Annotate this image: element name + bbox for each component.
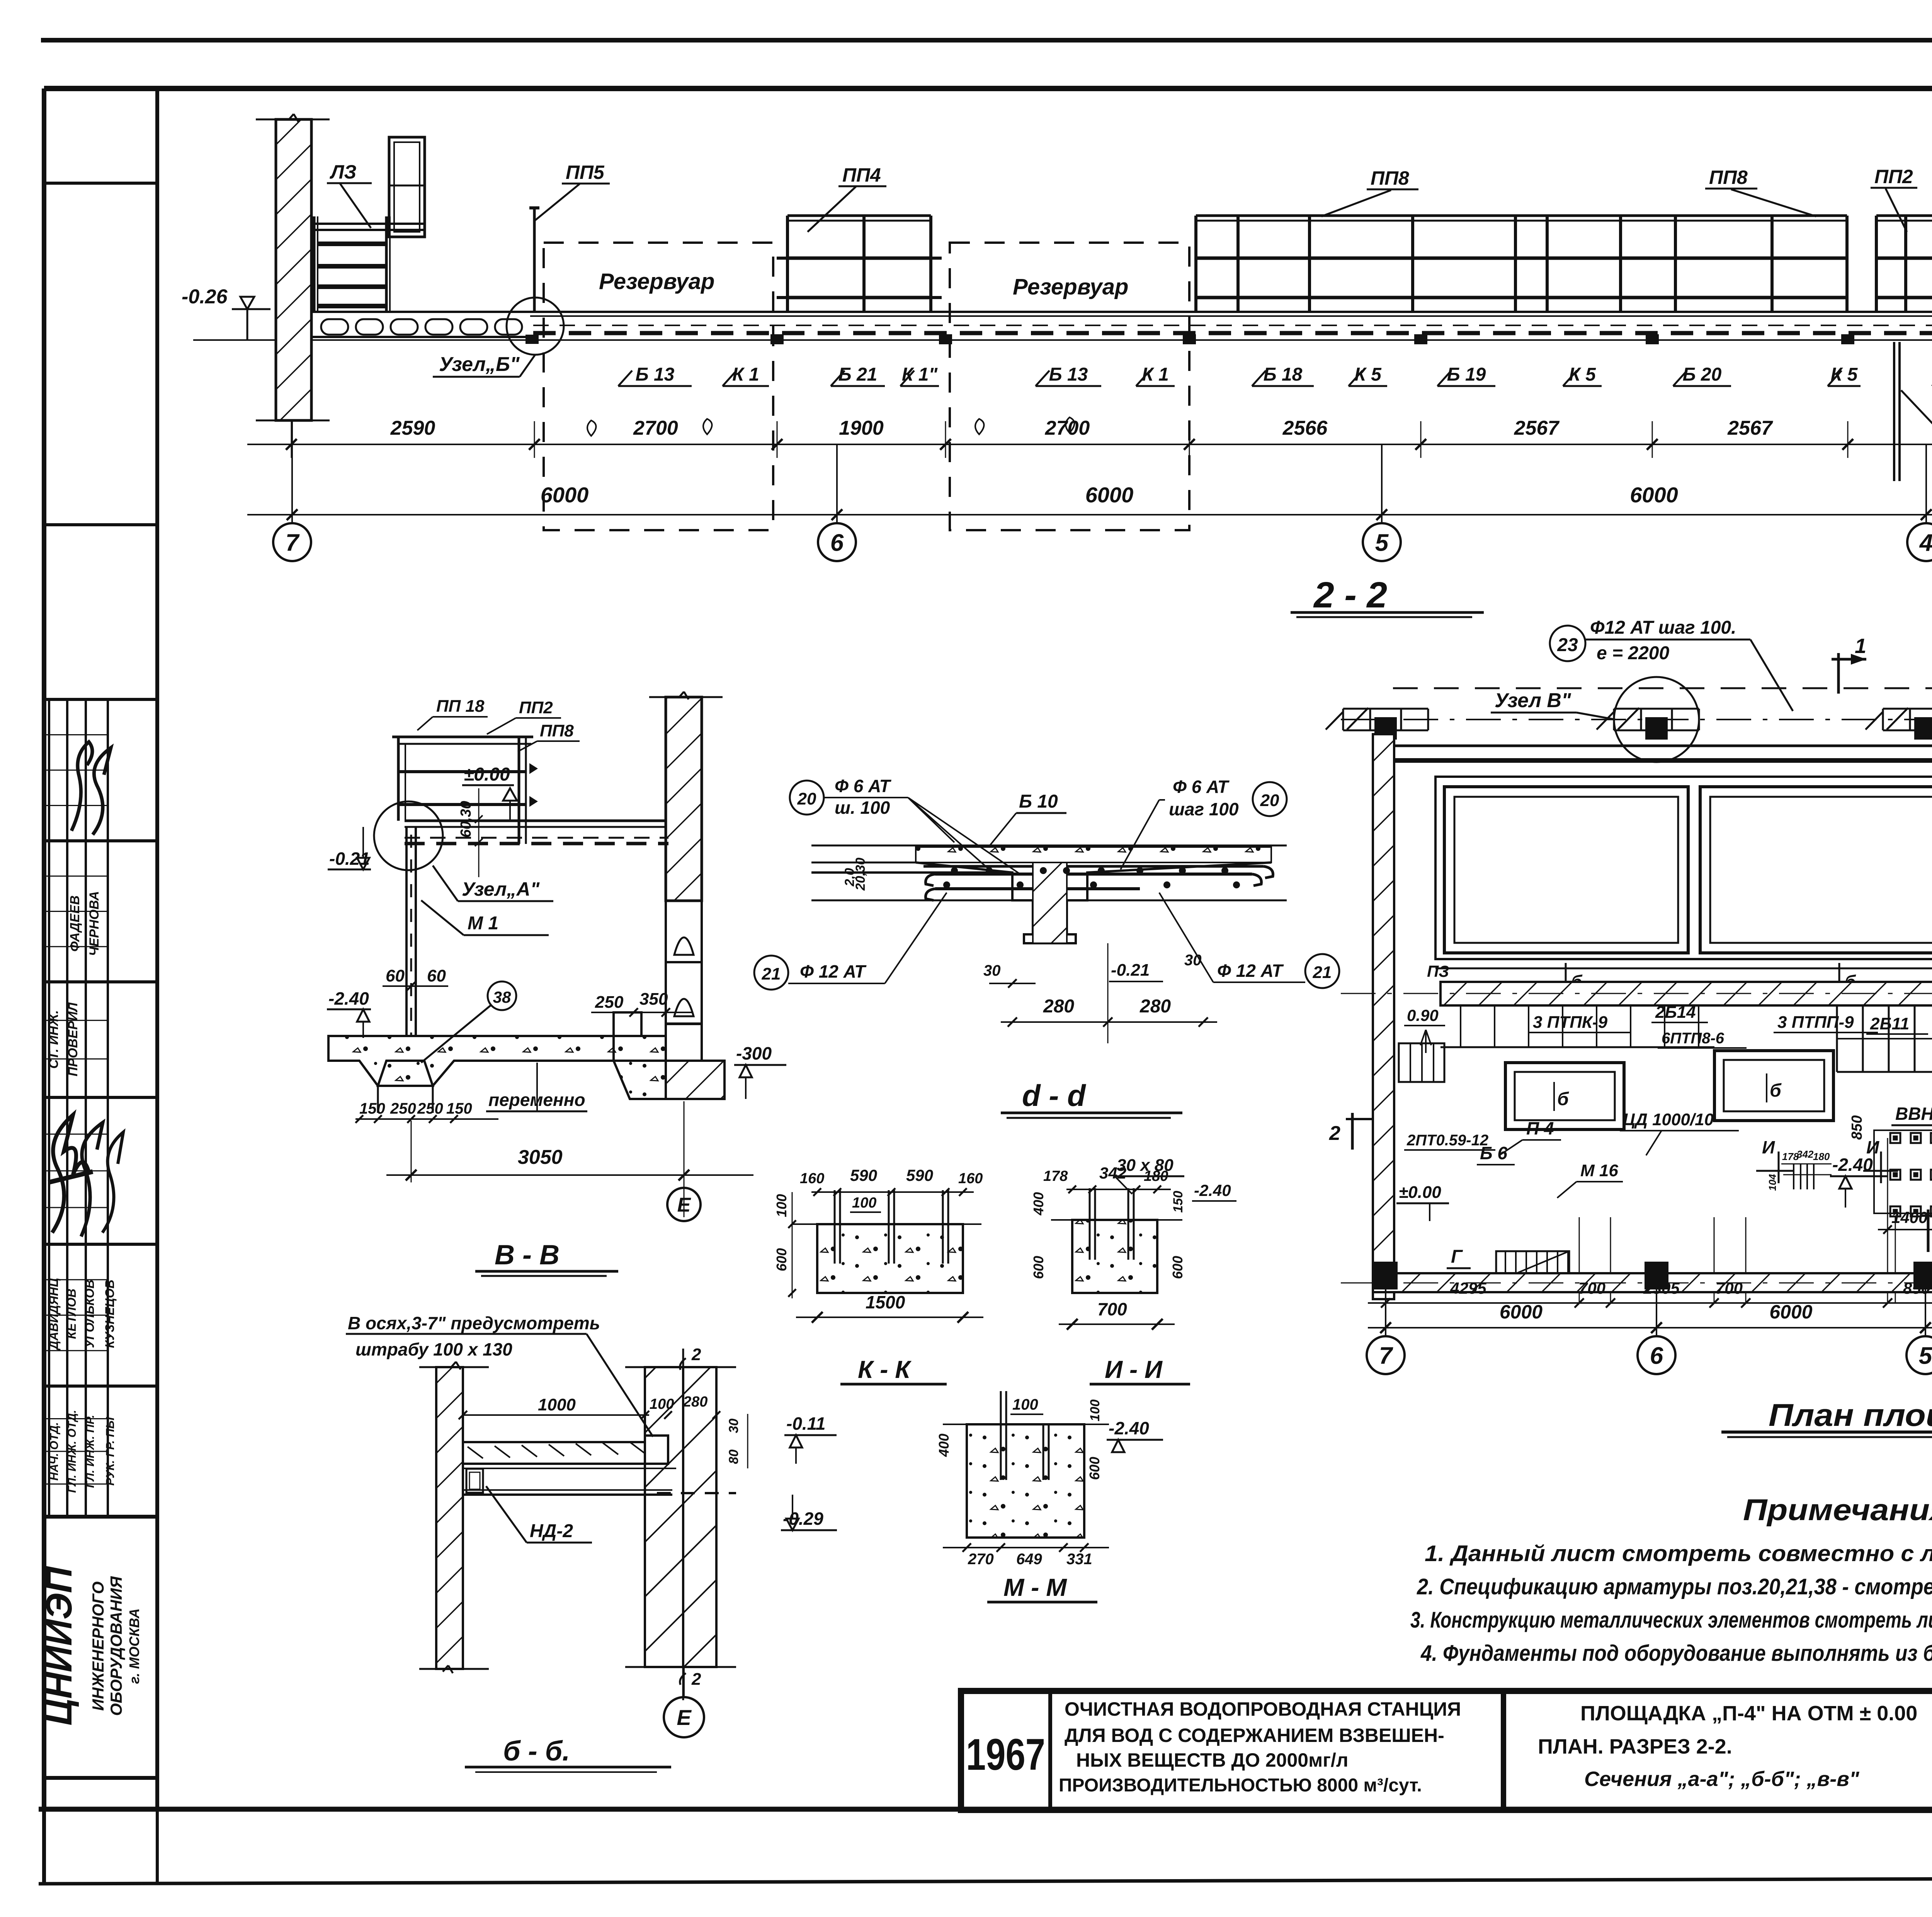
svg-text:ГЛ. ИНЖ. ОТД.: ГЛ. ИНЖ. ОТД. [66,1410,78,1493]
svg-text:6000: 6000 [1769,1301,1812,1323]
svg-text:250: 250 [390,1100,416,1117]
bottom dims 280 280 [1001,1021,1217,1023]
svg-text:Б 6: Б 6 [1480,1143,1507,1163]
svg-text:ЦД 1000/10: ЦД 1000/10 [1623,1110,1714,1129]
stem hatching [1033,862,1067,943]
svg-text:б: б [1557,1089,1569,1109]
svg-text:350: 350 [639,990,668,1009]
svg-text:250: 250 [417,1100,443,1117]
svg-text:ПП8: ПП8 [1371,167,1409,189]
svg-text:7: 7 [286,529,300,556]
svg-text:100: 100 [650,1396,674,1412]
svg-text:ПЛАН. РАЗРЕЗ 2-2.: ПЛАН. РАЗРЕЗ 2-2. [1538,1735,1732,1758]
svg-text:400: 400 [936,1434,952,1457]
reservoir dashed box 1 [544,243,773,530]
svg-text:104: 104 [1767,1174,1778,1191]
right wall of B-B hatched [666,697,702,901]
svg-text:±0.00: ±0.00 [464,764,510,785]
svg-text:2Б11: 2Б11 [1870,1014,1909,1033]
svg-text:3050: 3050 [518,1146,563,1169]
railings [777,140,1932,340]
left cabinet ЛЗ [389,137,425,237]
svg-text:Е: Е [677,1194,691,1216]
left outer wall hatched [1373,734,1394,1299]
svg-text:Узел„А": Узел„А" [462,878,540,900]
svg-text:Узел„Б": Узел„Б" [439,353,520,376]
dim 3050 [386,1174,753,1176]
floor slab hatched concrete [328,1036,666,1086]
svg-text:150: 150 [1171,1191,1185,1213]
svg-text:2ПТ0.59-12: 2ПТ0.59-12 [1406,1132,1488,1149]
svg-text:6ПТП8-6: 6ПТП8-6 [1662,1030,1725,1047]
svg-text:280: 280 [1139,996,1171,1017]
svg-text:Б 20: Б 20 [1683,364,1722,385]
south line of window band [1435,968,1932,970]
svg-text:20,30: 20,30 [853,857,868,891]
svg-text:-2.40: -2.40 [1194,1181,1231,1199]
svg-text:План площадку „ П4".: План площадку „ П4". [1769,1398,1932,1433]
svg-text:2700: 2700 [1045,417,1090,439]
svg-text:РУК. ГР. ПЫ: РУК. ГР. ПЫ [104,1417,117,1485]
svg-text:УГОЛЬКОВ: УГОЛЬКОВ [83,1279,97,1348]
svg-text:600: 600 [774,1248,789,1271]
svg-text:1967: 1967 [966,1730,1045,1779]
svg-text:б - б.: б - б. [503,1736,570,1767]
svg-text:250: 250 [595,993,624,1012]
svg-text:М 1: М 1 [468,913,498,934]
stairs bottom left [1496,1251,1569,1282]
svg-text:6: 6 [1650,1342,1663,1369]
svg-text:6000: 6000 [1500,1301,1543,1323]
dims above K-K [811,1191,974,1193]
svg-text:Б 18: Б 18 [1264,364,1303,385]
svg-text:178: 178 [1043,1168,1068,1184]
slab deck: hollow core left [311,311,530,313]
svg-text:ПП8: ПП8 [540,721,574,740]
svg-text:1000: 1000 [538,1395,576,1414]
svg-text:6000: 6000 [541,483,589,507]
svg-text:ЛЗ: ЛЗ [330,161,356,183]
б tick labels under windows [1565,963,1567,989]
rebar region: top flange bars [923,865,1264,868]
svg-text:НД-2: НД-2 [530,1521,573,1541]
svg-text:И - И: И - И [1105,1356,1163,1383]
svg-text:-300: -300 [736,1043,772,1063]
svg-text:180: 180 [1813,1151,1830,1162]
Д axis line [1341,1283,1932,1284]
left vertical title strip [39,88,157,1885]
svg-text:Резервуар: Резервуар [599,269,714,294]
svg-text:Б 21: Б 21 [838,364,878,385]
left hatched wall [436,1367,463,1669]
footing trapezoid under column [378,1061,433,1086]
svg-text:649: 649 [1016,1551,1042,1568]
bearing marks [770,334,784,344]
svg-text:Ф 6 АТ: Ф 6 АТ [835,776,892,796]
small stair left wall [1399,1043,1444,1082]
svg-text:e = 2200: e = 2200 [1597,643,1669,663]
dashed level line [657,1492,736,1494]
svg-text:2: 2 [691,1670,701,1689]
svg-text:150: 150 [359,1100,385,1117]
svg-text:21: 21 [762,964,781,983]
svg-text:Б 19: Б 19 [1447,364,1486,385]
svg-text:2: 2 [691,1345,701,1364]
svg-text:Ф 6 АТ: Ф 6 АТ [1173,777,1230,797]
beam below slab [463,1468,676,1469]
svg-text:331: 331 [1066,1551,1092,1568]
svg-text:100: 100 [774,1194,789,1217]
svg-text:700: 700 [1716,1279,1743,1297]
svg-text:2566: 2566 [1282,417,1328,439]
svg-text:ОЧИСТНАЯ ВОДОПРОВОДНАЯ СТАНЦ: ОЧИСТНАЯ ВОДОПРОВОДНАЯ СТАНЦИЯ [1065,1698,1461,1720]
right hatched column (two leaves + axis) [645,1367,683,1667]
svg-text:Ф 12 АТ: Ф 12 АТ [1217,961,1284,981]
svg-text:4: 4 [1919,529,1932,556]
svg-text:ОБОРУДОВАНИЯ: ОБОРУДОВАНИЯ [107,1576,125,1716]
svg-text:280: 280 [1043,996,1074,1017]
node post at узел Б [533,208,536,313]
svg-text:П 4: П 4 [1526,1118,1554,1138]
reservoir dashed box 2 [950,243,1189,530]
svg-text:Ф12 АТ шаг 100.: Ф12 АТ шаг 100. [1590,617,1736,638]
svg-text:700: 700 [1578,1279,1605,1297]
left wall hatched [276,119,311,420]
svg-text:600: 600 [1170,1256,1185,1279]
svg-text:-0.26: -0.26 [182,286,228,308]
svg-text:2: 2 [1329,1122,1340,1145]
svg-text:6: 6 [830,529,844,556]
beam labels under slab [433,353,1932,426]
svg-text:6000: 6000 [1630,483,1678,507]
canopy dashed outline top [1393,687,1932,689]
svg-text:Сечения „а-а"; „б-б"; „в-в": Сечения „а-а"; „б-б"; „в-в" [1584,1767,1860,1791]
svg-text:3. Конструкцию металлических: 3. Конструкцию металлических элементов с… [1410,1607,1932,1633]
Е axis wall hatched band [1440,982,1932,1005]
plank band under Е wall (2Б11 etc) [1837,1005,1932,1007]
bearing box [466,1469,483,1493]
svg-text:20: 20 [797,789,816,808]
lattice under 3ПТПК-9 [1440,1005,1714,1007]
svg-text:20: 20 [1260,791,1279,810]
svg-text:2567: 2567 [1727,417,1773,439]
svg-text:СТ. ИНЖ.: СТ. ИНЖ. [46,1010,61,1069]
svg-text:30: 30 [983,962,1001,979]
svg-text:38: 38 [493,988,511,1006]
construction verticals to dim row [1895,1217,1896,1303]
slab band with concrete top [811,845,1287,847]
svg-text:-2.40: -2.40 [1109,1418,1149,1438]
svg-text:ПРОВЕРИЛ: ПРОВЕРИЛ [66,1002,80,1077]
svg-text:К - К: К - К [858,1356,912,1383]
svg-text:КУЗНЕЦОВ: КУЗНЕЦОВ [103,1279,117,1348]
svg-text:±0.00: ±0.00 [1399,1183,1441,1202]
svg-text:б: б [1770,1080,1782,1101]
узел Б circle [507,298,564,355]
svg-text:400: 400 [1031,1192,1046,1216]
svg-text:Ф 12 АТ: Ф 12 АТ [800,961,867,981]
bottom dims row [1368,1302,1932,1304]
svg-text:23: 23 [1557,635,1578,655]
svg-text:В осях,3-7" предусмотреть: В осях,3-7" предусмотреть [348,1313,600,1333]
svg-text:1: 1 [1855,634,1866,658]
svg-text:Б 13: Б 13 [1049,364,1088,385]
svg-text:150: 150 [446,1100,472,1117]
svg-text:2 - 2: 2 - 2 [1313,575,1387,616]
left room boxes б [1505,1063,1624,1129]
svg-text:ПЗ: ПЗ [1427,962,1449,980]
svg-text:60,30: 60,30 [458,801,474,837]
svg-text:ПП4: ПП4 [842,164,881,186]
bottom wall (Д axis) hatched [1373,1273,1932,1292]
svg-text:Резервуар: Резервуар [1013,274,1128,299]
svg-text:М - М: М - М [1003,1573,1067,1601]
svg-text:Г: Г [1451,1247,1463,1267]
svg-text:2567: 2567 [1514,417,1560,439]
svg-text:ПП5: ПП5 [566,162,605,183]
svg-text:1. Данный лист смотреть: 1. Данный лист смотреть совместно с лист… [1425,1541,1932,1566]
svg-text:590: 590 [906,1166,933,1184]
ground line [193,339,1932,341]
svg-text:штрабу 100 х 130: штрабу 100 х 130 [355,1339,512,1359]
svg-text:0.90: 0.90 [1407,1006,1439,1024]
svg-text:М 16: М 16 [1580,1161,1618,1180]
rebar dots [951,867,958,874]
svg-text:ИНЖЕНЕРНОГО: ИНЖЕНЕРНОГО [89,1582,107,1711]
right footing under wall [614,1012,666,1061]
svg-text:7: 7 [1379,1342,1393,1369]
svg-text:1500: 1500 [866,1292,905,1312]
black column squares [1374,1262,1398,1289]
svg-text:3 ПТПП-9: 3 ПТПП-9 [1777,1013,1854,1032]
svg-text:30: 30 [726,1419,741,1433]
svg-text:К 1: К 1 [732,364,759,385]
svg-text:ЧЕРНОВА: ЧЕРНОВА [87,891,102,956]
bottom dim 1500 [796,1317,983,1318]
svg-text:ДАВИДЯНЦ: ДАВИДЯНЦ [47,1278,61,1351]
left stair ladder [313,216,316,312]
svg-text:Е: Е [677,1705,692,1730]
svg-text:-0.21: -0.21 [1111,961,1150,980]
svg-text:-2.40: -2.40 [1832,1155,1873,1175]
svg-text:5: 5 [1375,529,1389,556]
svg-text:ПЛОЩАДКА „П-4" НА ОТМ ± 0.: ПЛОЩАДКА „П-4" НА ОТМ ± 0.00 [1580,1702,1917,1725]
svg-text:шаг 100: шаг 100 [1169,799,1239,819]
window band [1435,777,1932,959]
svg-text:5: 5 [1919,1342,1932,1369]
svg-text:Б 10: Б 10 [1019,791,1058,812]
svg-text:К 1": К 1" [902,364,938,385]
svg-text:4295: 4295 [1450,1279,1486,1297]
axis Ж line [1341,719,1932,720]
svg-text:1900: 1900 [839,417,884,439]
svg-text:И: И [1762,1137,1775,1157]
svg-text:ПП2: ПП2 [519,698,553,717]
small foundation cluster at И (cd) [1793,1164,1794,1189]
svg-text:ЦНИИЭП: ЦНИИЭП [39,1566,80,1726]
svg-text:270: 270 [968,1551,994,1568]
bottom dims [943,1547,1109,1548]
block wall below (foundation blocks) [666,901,702,962]
svg-text:2305: 2305 [1643,1279,1680,1297]
T-beam stem [916,862,1271,943]
svg-text:ПП8: ПП8 [1709,167,1748,188]
thin column with dashes [405,827,408,1038]
svg-text:60: 60 [386,966,405,985]
svg-text:2590: 2590 [390,417,435,439]
svg-text:г. МОСКВА: г. МОСКВА [126,1608,142,1684]
svg-text:160: 160 [800,1170,824,1187]
level -0.26 left [182,286,270,339]
svg-text:К 5: К 5 [1831,364,1858,385]
svg-text:700: 700 [1097,1299,1127,1319]
callout circles 20 [790,781,824,815]
component labels with leaders [327,161,1932,232]
dimension chain top [247,417,1932,561]
svg-text:ФАДЕЕВ: ФАДЕЕВ [68,895,82,952]
section mark 2 left [1351,1113,1354,1150]
6000 dims [1368,1327,1932,1328]
svg-text:850: 850 [1849,1115,1865,1140]
svg-text:ПП 18: ПП 18 [436,697,485,716]
svg-text:НЫХ ВЕЩЕСТВ ДО 2000мг/л: НЫХ ВЕЩЕСТВ ДО 2000мг/л [1076,1749,1349,1771]
svg-text:600: 600 [1031,1256,1046,1279]
svg-text:100: 100 [1012,1396,1038,1413]
svg-text:100: 100 [852,1195,876,1211]
svg-text:В - В: В - В [495,1240,560,1271]
svg-text:Б 13: Б 13 [636,364,675,385]
узел В circle and label [1614,677,1699,762]
svg-text:ПП2: ПП2 [1874,166,1913,187]
svg-text:ПРОИЗВОДИТЕЛЬНОСТЬЮ 8000 м³/с: ПРОИЗВОДИТЕЛЬНОСТЬЮ 8000 м³/сут. [1059,1775,1422,1796]
svg-text:342: 342 [1797,1148,1814,1160]
svg-text:-2.40: -2.40 [328,988,369,1009]
svg-text:НАЧ. ОТД.: НАЧ. ОТД. [48,1422,61,1480]
slab (hatched concrete band with notch) [463,1436,668,1464]
svg-text:ш. 100: ш. 100 [835,798,890,818]
building top wall (north) [1394,745,1932,747]
svg-text:ДЛЯ ВОД С СОДЕРЖАНИЕМ ВЗВЕШЕН: ДЛЯ ВОД С СОДЕРЖАНИЕМ ВЗВЕШЕН- [1065,1725,1444,1746]
deck slab of B-B [405,820,666,822]
node В units on axis Ж [1343,708,1428,710]
svg-text:160: 160 [958,1170,983,1187]
svg-text:ГЛ. ИНЖ. ПР.: ГЛ. ИНЖ. ПР. [84,1415,97,1488]
E axis line [1341,993,1932,994]
equipment group 1 (ВВН-6) [1890,1133,1900,1143]
slab deck middle with hidden dashed beams [530,311,1932,313]
svg-text:-0.11: -0.11 [786,1414,825,1434]
svg-text:4. Фундаменты под оборудован: 4. Фундаменты под оборудование выполнять… [1420,1641,1932,1666]
grid circles bottom [1385,1289,1386,1337]
hook ends left [926,874,935,886]
svg-text:80: 80 [726,1449,741,1464]
svg-text:Примечания:: Примечания: [1743,1493,1932,1527]
svg-text:Узел В": Узел В" [1495,689,1571,712]
rebar callouts [1550,597,1932,715]
svg-text:1400: 1400 [1891,1208,1927,1226]
svg-text:280: 280 [683,1394,707,1410]
svg-text:d - d: d - d [1022,1078,1086,1112]
svg-text:30: 30 [1184,952,1202,969]
svg-text:2. Спецификацию арматуры поз.: 2. Спецификацию арматуры поз.20,21,38 - … [1417,1574,1932,1599]
svg-text:600: 600 [1087,1457,1102,1480]
svg-text:60: 60 [427,966,446,985]
svg-text:КЕТЛОВ: КЕТЛОВ [65,1289,78,1339]
section mark 1 at bottom mid [1927,1209,1930,1252]
svg-text:21: 21 [1313,963,1332,982]
callout circles 21 [754,956,788,990]
svg-text:100: 100 [1088,1400,1102,1422]
svg-text:30 х 80: 30 х 80 [1117,1156,1173,1175]
svg-text:590: 590 [850,1166,877,1184]
М1 column under slab right [1893,342,1895,481]
svg-text:2700: 2700 [633,417,678,439]
railing at top of B-B [392,736,533,738]
svg-text:6000: 6000 [1085,483,1134,507]
svg-text:ВВН-6: ВВН-6 [1895,1104,1932,1124]
